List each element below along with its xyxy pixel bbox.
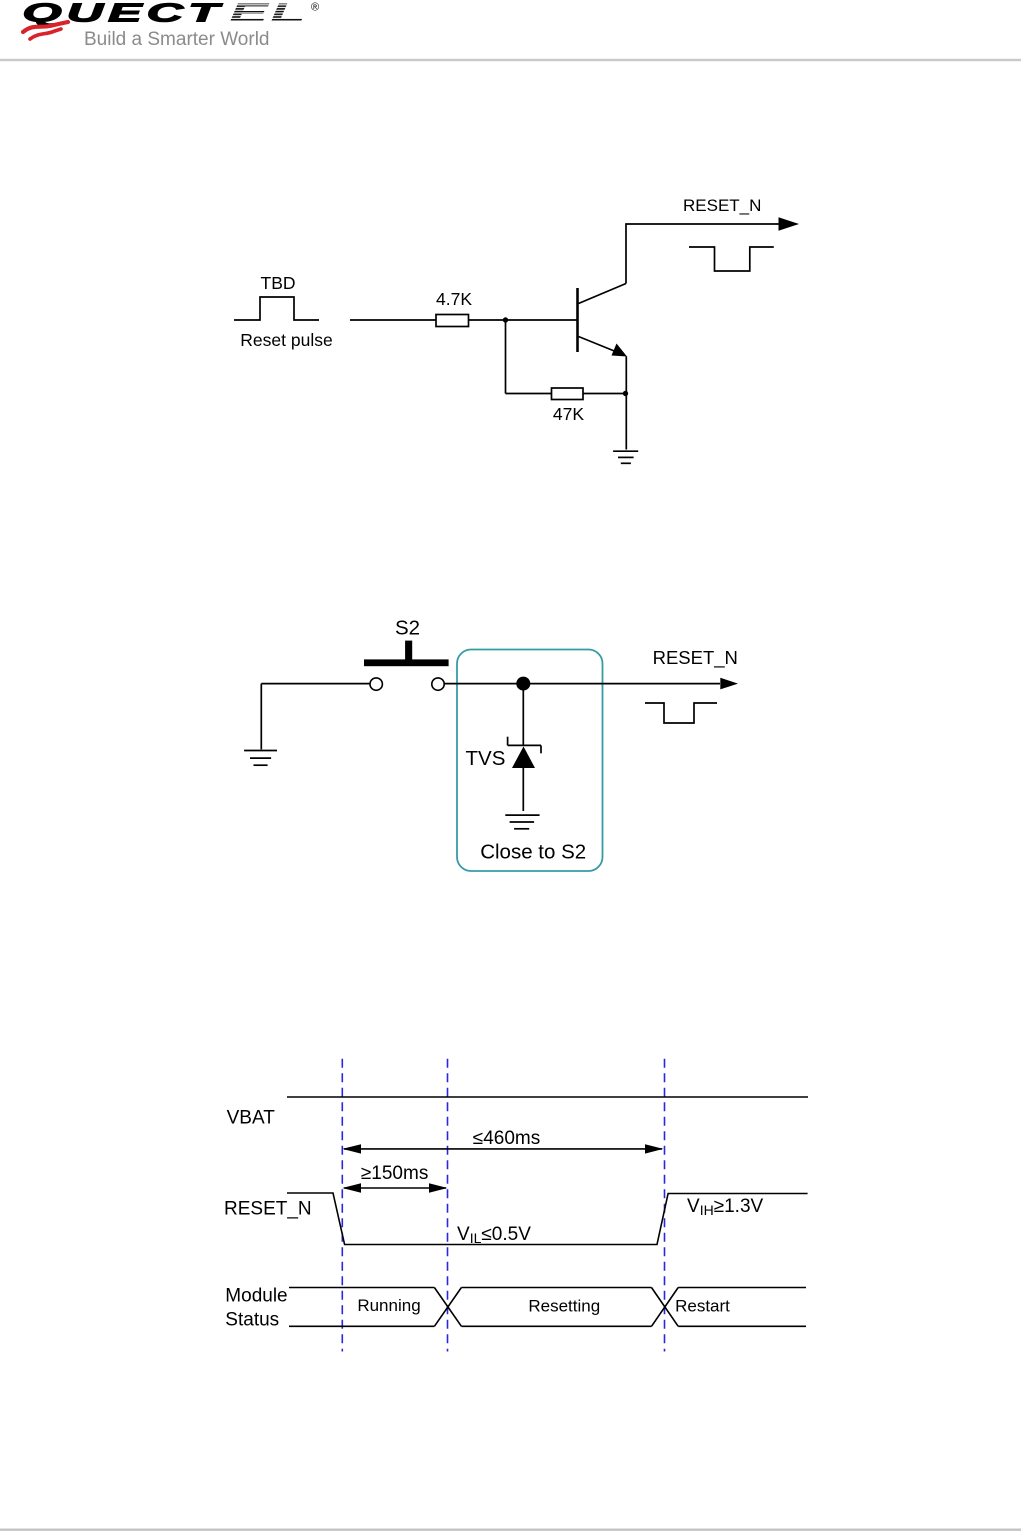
wire TVS to ground [522, 768, 524, 811]
junction base node [503, 317, 508, 322]
wire switch to output [444, 683, 720, 685]
wire collector to output [626, 224, 779, 284]
reset pulse waveform [234, 297, 319, 320]
wire node to TVS [522, 684, 524, 745]
wire emitter down [625, 357, 627, 450]
svg-text:≥150ms: ≥150ms [361, 1163, 428, 1184]
svg-text:TVS: TVS [466, 747, 506, 770]
svg-text:VIH≥1.3V: VIH≥1.3V [687, 1196, 764, 1218]
VBAT line [287, 1096, 808, 1098]
svg-text:Build a Smarter World: Build a Smarter World [84, 29, 270, 50]
Quectel logo wordmark [22, 0, 319, 27]
svg-text:4.7K: 4.7K [436, 289, 472, 309]
svg-text:S2: S2 [395, 616, 420, 639]
svg-text:Close to S2: Close to S2 [480, 841, 586, 864]
junction node RESET_N [516, 677, 530, 691]
ground [505, 815, 539, 829]
svg-text:RESET_N: RESET_N [224, 1199, 312, 1220]
footer separator line [0, 1529, 1021, 1531]
svg-text:Resetting: Resetting [528, 1297, 600, 1316]
region box Close to S2 [457, 650, 603, 872]
wire switch to ground [261, 683, 370, 685]
ground [244, 751, 277, 766]
svg-text:Restart: Restart [675, 1297, 730, 1316]
timing guide t2 [447, 1059, 449, 1352]
junction emitter node [623, 391, 628, 396]
svg-text:TBD: TBD [261, 273, 296, 293]
timing guide t1 [341, 1059, 343, 1352]
module status bus [289, 1288, 806, 1327]
wire base node down [505, 320, 507, 394]
svg-text:47K: 47K [553, 404, 584, 424]
wire to R2 [506, 393, 552, 395]
header separator line [0, 59, 1021, 61]
svg-text:EL: EL [229, 0, 308, 27]
svg-text:RESET_N: RESET_N [653, 647, 738, 669]
RESET_N waveform [689, 247, 774, 271]
RESET_N waveform [645, 703, 717, 723]
timing guide t3 [664, 1059, 666, 1352]
arrow 150ms [342, 1183, 447, 1192]
resistor R2 47K [552, 388, 584, 400]
svg-text:Status: Status [225, 1309, 279, 1330]
logo red swoosh [23, 22, 68, 39]
svg-text:Reset pulse: Reset pulse [240, 330, 332, 350]
svg-text:®: ® [311, 2, 319, 14]
wire R2 to emitter node [583, 393, 626, 395]
svg-text:Module: Module [225, 1286, 287, 1307]
svg-text:RESET_N: RESET_N [683, 196, 761, 215]
svg-text:QUECT: QUECT [22, 0, 223, 27]
svg-text:≤460ms: ≤460ms [473, 1128, 540, 1149]
RESET_N output arrow [779, 217, 800, 230]
resistor R1 4.7K [436, 315, 469, 327]
ground [613, 451, 638, 463]
svg-text:VIL≤0.5V: VIL≤0.5V [457, 1224, 531, 1246]
arrow 460ms [342, 1144, 663, 1153]
RESET_N output arrow [720, 678, 738, 690]
transistor Q1 [578, 284, 628, 357]
svg-text:Running: Running [357, 1296, 420, 1315]
wire input to R1 [350, 319, 436, 321]
svg-text:VBAT: VBAT [227, 1108, 276, 1129]
switch S2 [364, 641, 449, 691]
RESET_N waveform [287, 1193, 808, 1245]
TVS diode D1 [508, 737, 541, 768]
wire R1 to base node [469, 319, 578, 321]
